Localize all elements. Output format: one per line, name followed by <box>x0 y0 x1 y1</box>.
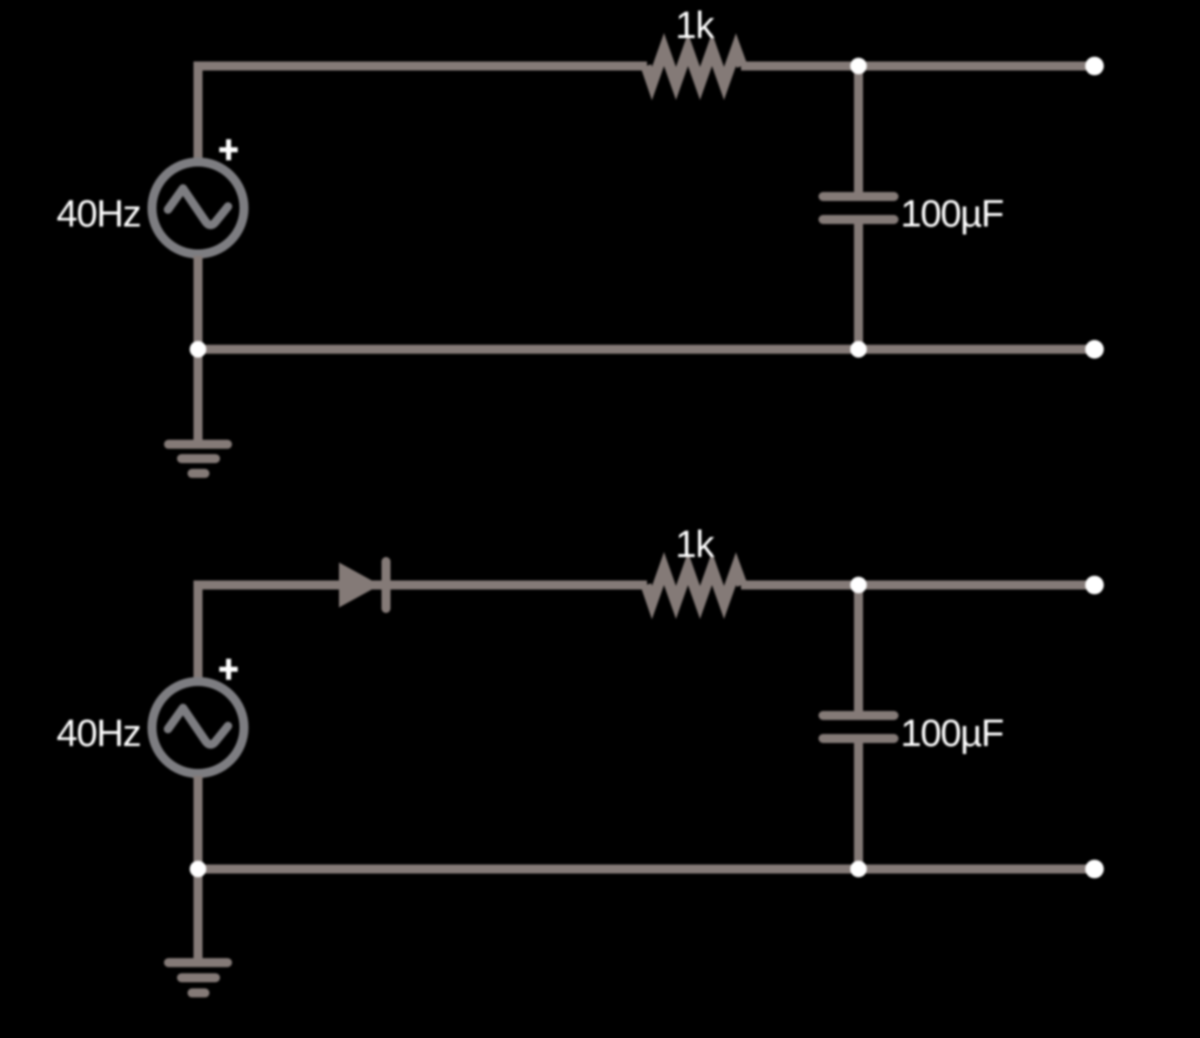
wire capacitor bottom lead (top circuit) <box>854 223 863 349</box>
plus polarity mark (bottom circuit) <box>219 659 237 680</box>
AC voltage source (top circuit) circle <box>152 162 244 254</box>
junction node at capacitor top (bottom circuit) <box>850 577 867 594</box>
junction node at source bottom (bottom circuit) <box>190 861 207 878</box>
output terminal bottom (bottom circuit) <box>1085 860 1104 879</box>
plus polarity mark (top circuit) <box>219 139 237 160</box>
wire capacitor bottom lead (bottom circuit) <box>854 742 863 869</box>
AC source sine symbol (top circuit) <box>168 189 228 225</box>
ground symbol (top circuit) <box>169 349 228 473</box>
resistor 1k (bottom circuit) <box>646 569 742 603</box>
svg-text:100µF: 100µF <box>901 194 1004 236</box>
junction node at capacitor top (top circuit) <box>850 58 867 75</box>
junction node at source bottom (top circuit) <box>190 341 207 358</box>
svg-text:40Hz: 40Hz <box>57 194 141 236</box>
output terminal top (top circuit) <box>1085 57 1104 76</box>
diode (bottom circuit) <box>339 563 380 608</box>
wire source bottom to ground node (bottom circuit) <box>194 776 203 869</box>
ground symbol (bottom circuit) <box>169 869 228 993</box>
wire top rail left segment (source to resistor) <box>198 66 647 160</box>
svg-text:1k: 1k <box>675 5 715 47</box>
junction node at capacitor bottom (top circuit) <box>850 341 867 358</box>
wire capacitor top lead (top circuit) <box>854 66 863 193</box>
AC source sine symbol (bottom circuit) <box>168 708 228 744</box>
diode cathode bar (bottom circuit) <box>382 562 391 609</box>
capacitor 100uF (bottom circuit) plates <box>823 716 894 739</box>
svg-text:1k: 1k <box>675 524 715 566</box>
svg-text:100µF: 100µF <box>901 713 1004 755</box>
wire bottom rail (bottom circuit) <box>198 865 1095 874</box>
wire top rail right segment (resistor to output terminal, bottom circuit) <box>741 581 1095 590</box>
output terminal bottom (top circuit) <box>1085 340 1104 359</box>
output terminal top (bottom circuit) <box>1085 576 1104 595</box>
AC voltage source (bottom circuit) circle <box>152 682 244 774</box>
junction node at capacitor bottom (bottom circuit) <box>850 861 867 878</box>
svg-text:40Hz: 40Hz <box>57 713 141 755</box>
wire bottom rail (top circuit) <box>198 345 1095 354</box>
wire source bottom to ground node (top circuit) <box>194 256 203 349</box>
wire top rail right segment (resistor to output terminal) <box>741 62 1095 71</box>
capacitor 100uF (top circuit) plates <box>823 197 894 220</box>
resistor 1k (top circuit) <box>646 50 742 84</box>
wire capacitor top lead (bottom circuit) <box>854 585 863 712</box>
wire top rail left segment (source to diode, bottom circuit) <box>198 585 647 680</box>
